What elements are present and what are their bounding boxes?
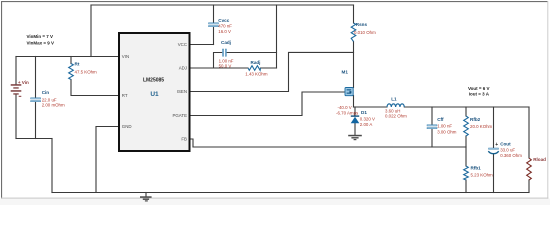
wire Rfb2 bottom [465,136,467,147]
svg-text:L1: L1 [391,97,397,102]
resistor Rload [527,157,546,180]
node Vout annotation [468,86,490,97]
resistor Rfb2 [464,116,493,136]
capacitor Cadj [219,40,234,69]
capacitor Cvcc [209,18,233,34]
wire Cadj left leg [214,53,223,69]
wire VIN vertical to ADJ [276,5,278,68]
svg-text:Iout = 3 A: Iout = 3 A [469,92,490,97]
wire switch node rail [354,106,388,108]
wire Rt bottom to RT pin [71,80,119,96]
wire Rfb1 top [465,147,467,166]
capacitor Cin [31,90,65,107]
svg-text:GND: GND [122,124,132,129]
wire GND pin row [96,127,119,193]
svg-text:Cout: Cout [500,142,511,147]
capacitor Cout polarized [488,142,522,159]
svg-text:Cvcc: Cvcc [218,18,229,23]
svg-text:-40.0 V: -40.0 V [338,105,352,110]
svg-text:3.00 Ohm: 3.00 Ohm [437,130,457,135]
svg-text:50.0 V: 50.0 V [219,64,232,69]
transistor M1 [342,70,354,96]
svg-text:VCC: VCC [178,42,187,47]
wire FB pin stub [190,139,194,147]
page strip below panel [0,199,550,205]
svg-text:Cadj: Cadj [221,40,231,45]
svg-text:-6.70 Amps: -6.70 Amps [336,111,359,116]
svg-text:LM25085: LM25085 [143,77,164,83]
svg-text:0.022 Ohm: 0.022 Ohm [385,114,407,119]
svg-text:47.5 KOhm: 47.5 KOhm [75,70,98,75]
U1 pin labels [122,42,187,142]
wire PGATE row [190,92,346,116]
svg-text:5.23 KOhm: 5.23 KOhm [471,172,494,177]
svg-text:Rsns: Rsns [356,22,368,27]
svg-text:+: + [495,142,498,148]
svg-text:16.0 V: 16.0 V [218,29,231,34]
capacitor Cff [427,117,457,134]
wire Cvcc riser bottom [213,26,215,44]
svg-text:0.360 Ohm: 0.360 Ohm [500,153,522,158]
wire Cvcc riser top [213,5,215,23]
inductor L1 [385,97,407,119]
svg-text:1.00 nF: 1.00 nF [437,124,452,129]
svg-text:PGATE: PGATE [172,113,187,118]
wire Vout rail [404,106,529,108]
wire D1 anode stem [354,107,356,116]
svg-text:M1: M1 [342,70,349,75]
svg-text:D1: D1 [361,110,367,115]
svg-text:470 nF: 470 nF [218,24,232,29]
svg-text:VIN: VIN [122,54,129,59]
wire Rsns top [353,5,355,23]
wire Rfb2 top [465,107,467,116]
wire VIN row [16,56,119,58]
wire D1 cathode to ground [354,123,356,135]
wire input ground riser [51,139,53,193]
svg-text:Rload: Rload [533,157,546,162]
wire input ground row [16,138,52,140]
ground symbol bottom rail [140,196,152,201]
wire Rsns bottom to M1 [353,42,355,88]
svg-text:1.43 KOhm: 1.43 KOhm [245,71,268,76]
svg-text:+: + [18,80,21,85]
svg-text:Rfb1: Rfb1 [471,166,482,171]
wire Cff top [431,107,433,125]
node VinMin VinMax annotation [27,34,55,45]
svg-text:Radj: Radj [251,60,261,65]
wire Cout top [493,107,495,148]
svg-text:0.320 V: 0.320 V [360,116,375,121]
svg-text:2.00 mOhm: 2.00 mOhm [42,103,65,108]
svg-text:VinMin = 7 V: VinMin = 7 V [27,34,54,39]
wire ground stem bottom rail [145,193,147,197]
resistor Rt [69,61,97,79]
wire VCC row [190,44,214,46]
resistor Rsns [351,22,376,42]
resistor Radj [245,60,268,76]
wire bottom rail [52,192,529,194]
wire Rfb1 bottom [465,180,467,193]
wire M1 drain to switch node [353,96,355,108]
diode D1 [351,110,375,127]
svg-text:U1: U1 [150,91,159,98]
wire Rt top [70,57,72,64]
wire Rload top [528,107,530,158]
svg-text:Rt: Rt [75,61,80,66]
wire top rail riser [90,5,92,57]
wire Cadj right [226,52,276,54]
wire top rail [91,4,354,6]
svg-text:FB: FB [181,137,187,142]
svg-text:Cin: Cin [42,90,50,95]
svg-text:2.00 A: 2.00 A [360,122,373,127]
wire battery bottom [15,95,17,139]
svg-text:Cff: Cff [437,117,444,122]
svg-text:Vout = 6 V: Vout = 6 V [468,86,490,91]
svg-text:RT: RT [122,93,128,98]
svg-text:3.60 uH: 3.60 uH [385,108,400,113]
svg-text:0.010 Ohm: 0.010 Ohm [354,30,376,35]
wire FB rail [193,146,466,148]
node switch annotation [336,105,359,115]
svg-text:ADJ: ADJ [179,66,187,71]
wire ADJ row [190,67,249,69]
wire Cff bottom [431,128,433,147]
op-amp U1 LM25085 body [119,33,190,151]
svg-text:VinMax = 9 V: VinMax = 9 V [27,40,55,45]
battery Vin [11,80,29,97]
svg-text:22.0 uF: 22.0 uF [42,97,57,102]
ground under D1 [348,135,362,140]
wire battery top [15,57,17,85]
svg-text:ISEN: ISEN [177,89,187,94]
svg-text:Rfb2: Rfb2 [470,117,481,122]
svg-text:20.0 KOhm: 20.0 KOhm [470,124,493,129]
wire Rload bottom [528,180,530,193]
wire ADJ row right of Radj [261,67,277,69]
wire ISEN row [190,52,354,91]
wire Cout bottom [493,154,495,193]
svg-text:Vin: Vin [22,80,29,85]
svg-text:1.00 nF: 1.00 nF [219,58,234,63]
wire Cin bottom [35,101,37,138]
wire Cin top [35,57,37,99]
svg-text:33.0 uF: 33.0 uF [500,147,515,152]
resistor Rfb1 [464,166,493,180]
